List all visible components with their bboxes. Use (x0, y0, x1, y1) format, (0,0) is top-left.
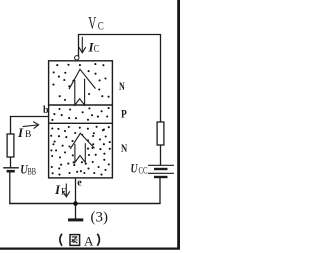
svg-text:U: U (131, 161, 138, 176)
svg-text:P: P (121, 107, 127, 121)
wire left rail upper (10, 116, 12, 135)
electron flow arrow in bottom N region (70, 133, 94, 162)
svg-text:C: C (94, 44, 100, 55)
wire left rail lower (9, 171, 11, 204)
wire right rail upper (160, 35, 162, 123)
svg-text:CC: CC (139, 167, 148, 177)
junction line N/P (49, 104, 113, 106)
svg-text:I: I (17, 125, 24, 140)
ground (68, 204, 83, 220)
transistor body box (N-P-N structure) (49, 61, 113, 178)
svg-text:e: e (77, 178, 82, 189)
battery Ubb (3, 168, 19, 171)
page border bottom (0, 248, 180, 250)
caption (figure A) (60, 233, 100, 248)
resistor Rb (7, 134, 14, 157)
resistor Rc (157, 122, 164, 145)
wire collector vertical (78, 35, 80, 59)
wire top horizontal to right rail (78, 34, 161, 36)
current arrow Ic (79, 37, 86, 53)
current arrow Ib (23, 122, 39, 129)
wire bottom rail (9, 203, 160, 205)
wire resistor to battery (160, 145, 162, 166)
doping dots P region (51, 107, 109, 121)
svg-text:BB: BB (28, 168, 37, 178)
doping dots bottom N region (50, 126, 111, 176)
junction line P/N (49, 122, 113, 124)
svg-text:N: N (119, 79, 125, 93)
battery Ucc (148, 165, 174, 177)
junction node e on bottom rail (73, 201, 78, 206)
svg-text:N: N (121, 141, 127, 155)
doping dots top N region (52, 63, 109, 101)
wire emitter vertical (75, 178, 77, 204)
current arrow Ie (63, 184, 70, 197)
svg-text:I: I (54, 182, 61, 197)
svg-text:A: A (84, 233, 94, 248)
wire base horizontal (10, 116, 49, 118)
svg-text:(3): (3) (91, 210, 109, 226)
wire resistor to battery (10, 157, 12, 168)
svg-text:V: V (88, 13, 96, 33)
svg-text:b: b (43, 105, 49, 116)
svg-text:B: B (25, 130, 31, 140)
terminal c circle (75, 56, 79, 60)
electron flow arrow in top N region (69, 69, 96, 105)
svg-text:C: C (98, 21, 104, 33)
svg-text:E: E (61, 188, 67, 198)
wire right rail lower (159, 177, 161, 204)
page border right (177, 0, 180, 249)
